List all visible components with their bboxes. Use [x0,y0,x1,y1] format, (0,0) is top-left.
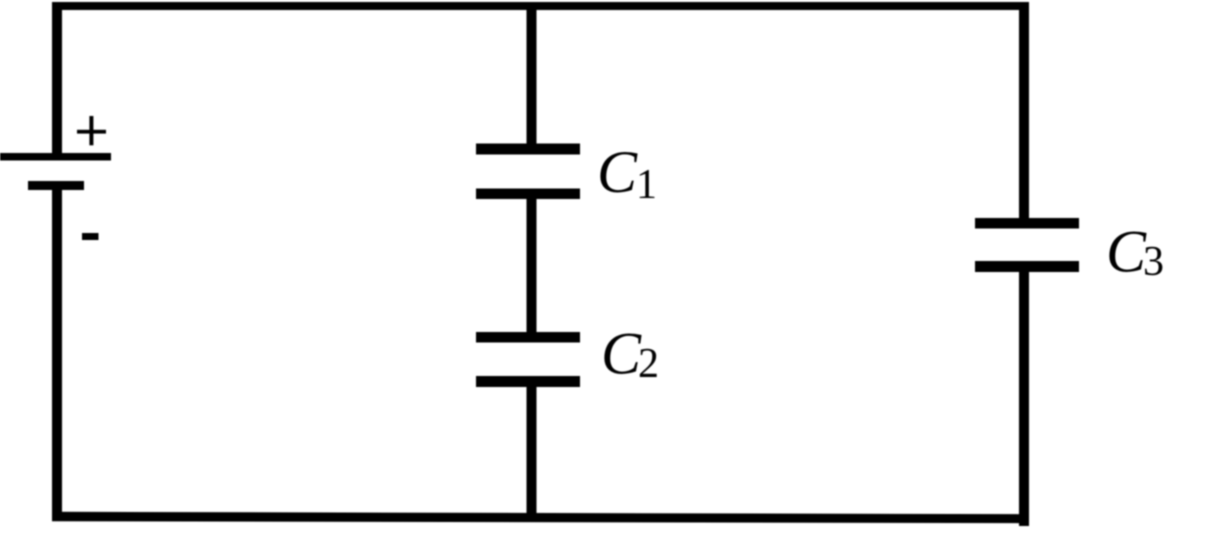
capacitor C3 top plate [975,218,1079,229]
svg-text:C: C [601,321,642,387]
svg-text:1: 1 [636,162,657,208]
capacitor C1 top plate [476,144,580,155]
svg-text:C: C [597,139,638,205]
capacitor C2 top plate [476,332,580,343]
label - [82,233,99,240]
svg-text:2: 2 [638,341,659,387]
wire left lower (battery - lead) [52,185,62,521]
wire top [52,2,1028,10]
capacitor C2 bottom plate [476,376,580,387]
wire right upper (top rail to C3) [1019,2,1029,225]
wire right lower (C3 to bottom rail) [1019,264,1029,526]
wire bottom [52,512,1029,523]
wire left upper (battery + lead) [52,2,62,157]
battery V1 negative plate [28,181,84,190]
svg-text:3: 3 [1143,239,1164,285]
label + [77,116,106,145]
svg-text:C: C [1106,219,1147,285]
wire middle lower (C2 to bottom rail) [527,379,537,522]
wire middle upper (top rail to C1) [527,2,537,150]
capacitor C1 bottom plate [476,189,580,200]
capacitor C3 bottom plate [975,261,1079,272]
battery V1 positive plate [0,153,111,161]
wire middle mid (C1 to C2) [527,192,537,338]
